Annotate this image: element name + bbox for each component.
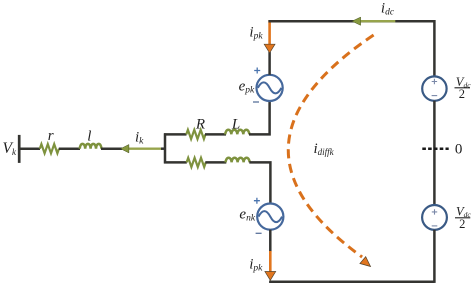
svg-text:2: 2 xyxy=(459,87,465,101)
wire Vk to resistor r xyxy=(20,147,40,150)
wire lower R to L xyxy=(205,161,226,164)
current arrow idc (green, pointing left) xyxy=(360,20,395,22)
svg-text:r: r xyxy=(48,128,54,144)
source enk circle xyxy=(257,204,283,230)
current arrow ipk (orange, down) xyxy=(268,20,271,45)
wire bottom rail xyxy=(269,281,434,284)
svg-text:R: R xyxy=(195,116,205,132)
resistor lower xyxy=(187,158,206,167)
inductor lower xyxy=(226,158,250,163)
wire R to L xyxy=(205,133,226,136)
wire r to inductor l xyxy=(59,147,80,150)
wire top rail xyxy=(268,21,434,77)
wire right mid xyxy=(433,101,436,205)
arrowhead idiffk xyxy=(360,257,371,267)
resistor R xyxy=(186,130,205,139)
dashed zero reference line xyxy=(422,148,448,151)
node Vk terminal bar xyxy=(18,135,21,163)
minus sign top Vdc xyxy=(432,95,438,97)
node junction vertical xyxy=(164,133,167,163)
plus sign bottom Vdc xyxy=(432,209,437,214)
wire upper branch left xyxy=(164,133,187,136)
circulating current arc idiffk (orange dashed) xyxy=(288,35,373,257)
wire right bottom to bottom rail xyxy=(433,230,436,283)
svg-text:0: 0 xyxy=(455,142,463,158)
svg-text:2: 2 xyxy=(459,217,465,231)
resistor r xyxy=(40,144,59,153)
svg-text:l: l xyxy=(87,128,91,144)
source Vdc/2 bottom circle xyxy=(422,205,447,230)
sine wave inside enk xyxy=(259,211,283,222)
plus sign top Vdc xyxy=(432,79,437,84)
minus sign epk xyxy=(253,101,259,103)
wire L to upper corner xyxy=(249,101,270,134)
sine wave inside epk xyxy=(258,82,282,93)
source Vdc/2 top circle xyxy=(422,76,446,100)
source epk circle xyxy=(257,75,283,101)
wire l to arrow ik xyxy=(101,147,122,150)
inductor L xyxy=(225,130,249,135)
minus sign enk xyxy=(256,232,262,234)
plus sign epk xyxy=(254,68,260,74)
wire enk bottom xyxy=(269,230,272,252)
wire lower L to corner down xyxy=(249,162,270,204)
plus sign enk xyxy=(254,198,260,204)
inductor l xyxy=(80,144,102,149)
wire junction stub xyxy=(161,147,165,150)
current arrow ik (green, pointing left) xyxy=(129,147,162,149)
minus sign bottom Vdc xyxy=(432,225,438,227)
wire epk top to corner xyxy=(268,52,271,75)
wire lower branch left xyxy=(164,161,187,164)
current arrow ipk bottom (orange, down) xyxy=(269,251,272,272)
svg-text:L: L xyxy=(231,116,240,132)
